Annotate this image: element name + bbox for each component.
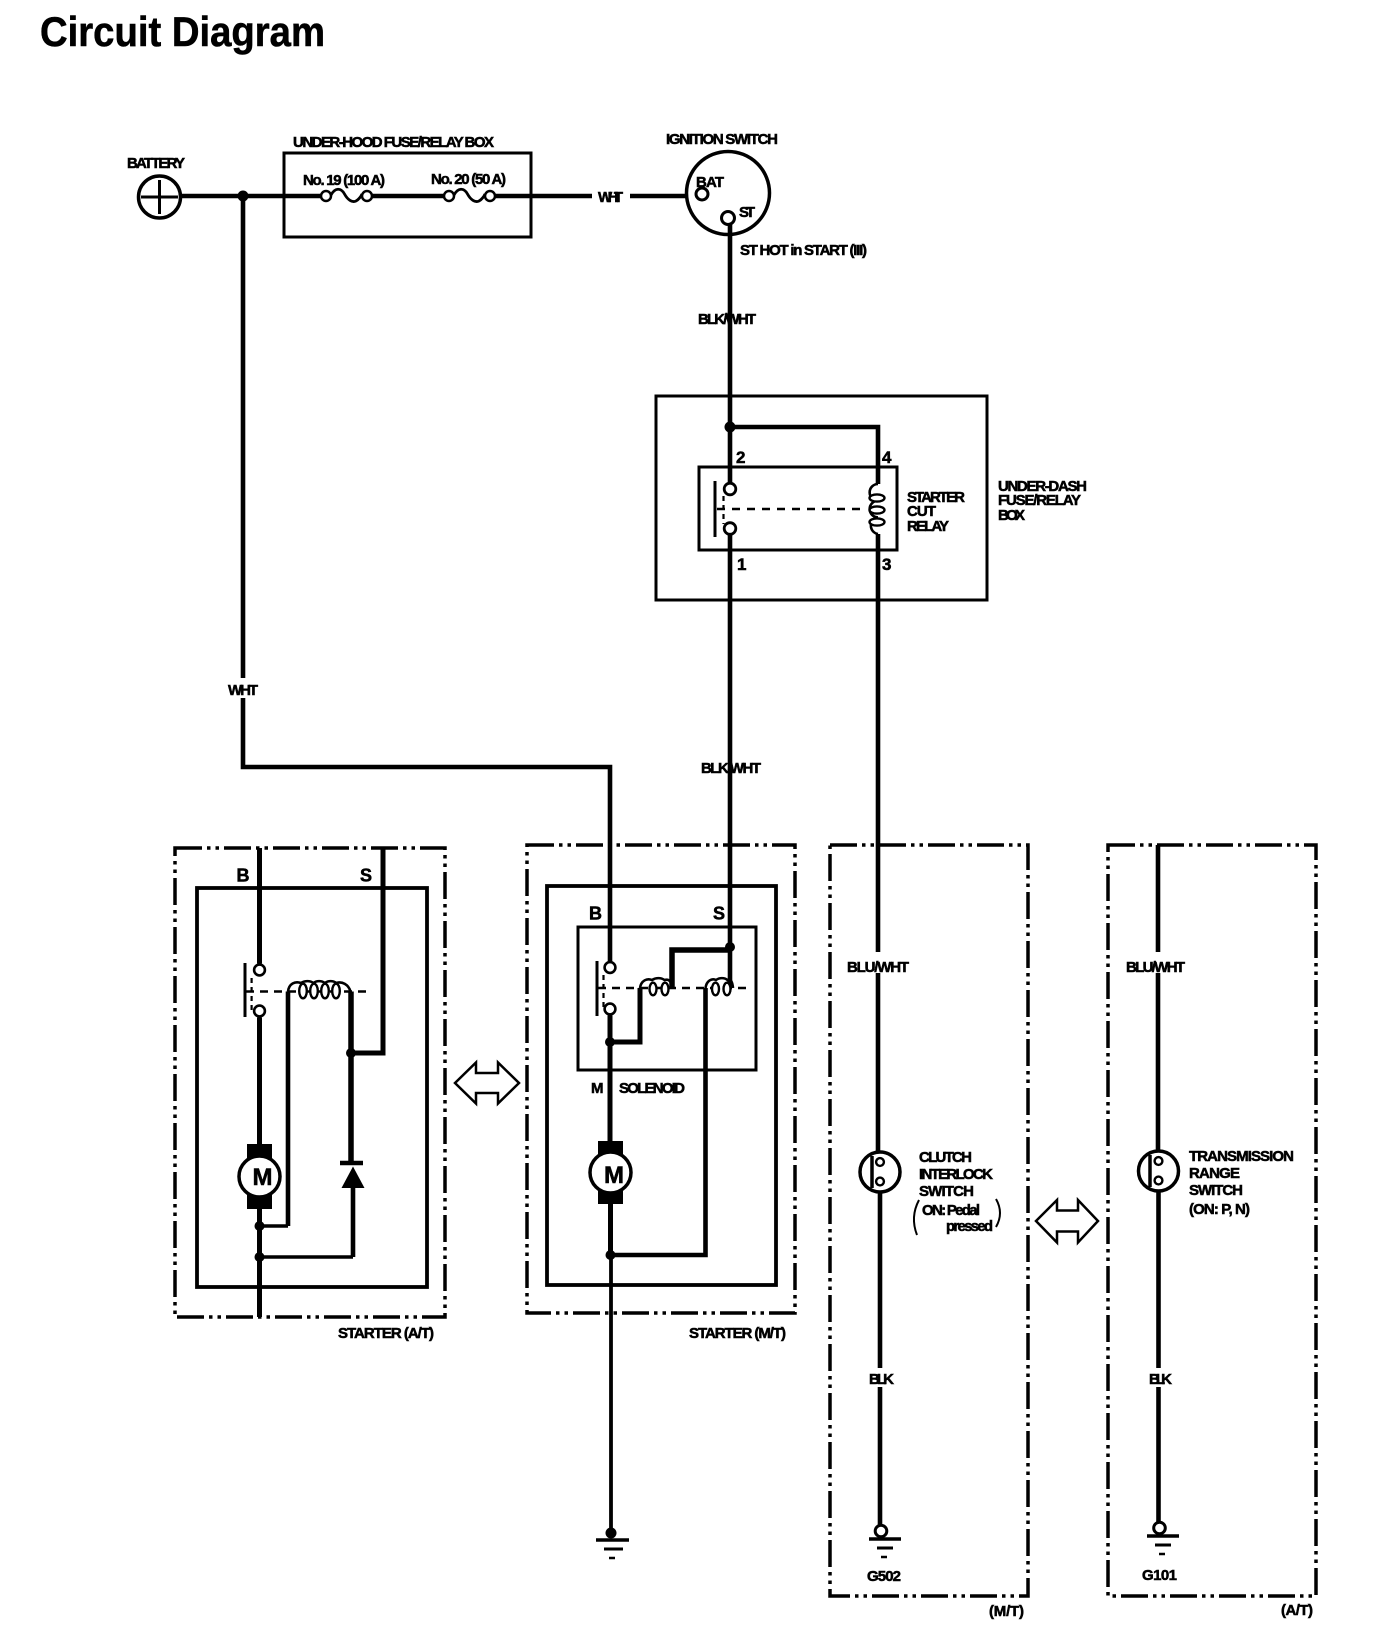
svg-text:(A/T): (A/T) bbox=[1281, 1602, 1313, 1619]
svg-text:M: M bbox=[604, 1162, 624, 1189]
svg-text:SOLENOID: SOLENOID bbox=[619, 1080, 685, 1097]
svg-text:2: 2 bbox=[736, 448, 745, 467]
svg-text:BLK: BLK bbox=[869, 1371, 894, 1388]
svg-text:RELAY: RELAY bbox=[907, 518, 949, 535]
svg-text:G502: G502 bbox=[867, 1568, 901, 1585]
svg-text:BLK: BLK bbox=[1149, 1371, 1172, 1388]
svg-text:No. 19 (100 A): No. 19 (100 A) bbox=[303, 172, 385, 189]
svg-text:SWITCH: SWITCH bbox=[919, 1183, 974, 1200]
svg-text:IGNITION SWITCH: IGNITION SWITCH bbox=[666, 131, 778, 148]
svg-text:INTERLOCK: INTERLOCK bbox=[919, 1166, 993, 1183]
svg-text:BATTERY: BATTERY bbox=[127, 155, 185, 172]
svg-text:BLU/WHT: BLU/WHT bbox=[847, 959, 909, 976]
svg-text:RANGE: RANGE bbox=[1189, 1165, 1240, 1182]
svg-text:pressed: pressed bbox=[946, 1218, 993, 1235]
svg-text:M: M bbox=[253, 1164, 273, 1191]
svg-text:(M/T): (M/T) bbox=[989, 1603, 1024, 1620]
svg-text:B: B bbox=[237, 866, 250, 886]
svg-text:No. 20 (50 A): No. 20 (50 A) bbox=[431, 171, 506, 188]
svg-text:BAT: BAT bbox=[696, 174, 724, 191]
svg-text:ST HOT in START (III): ST HOT in START (III) bbox=[740, 242, 867, 259]
svg-text:ST: ST bbox=[739, 204, 755, 221]
svg-text:G101: G101 bbox=[1142, 1567, 1177, 1584]
svg-text:B: B bbox=[589, 904, 602, 924]
svg-text:3: 3 bbox=[882, 555, 891, 574]
svg-text:WHT: WHT bbox=[228, 682, 258, 699]
svg-text:M: M bbox=[591, 1080, 604, 1097]
svg-text:BLK/WHT: BLK/WHT bbox=[701, 760, 761, 777]
svg-text:WHT: WHT bbox=[598, 189, 623, 206]
svg-text:SWITCH: SWITCH bbox=[1189, 1182, 1243, 1199]
svg-text:ON: Pedal: ON: Pedal bbox=[922, 1202, 980, 1219]
svg-text:BOX: BOX bbox=[998, 507, 1025, 524]
svg-text:S: S bbox=[360, 866, 372, 886]
svg-text:S: S bbox=[713, 904, 725, 924]
svg-text:STARTER (A/T): STARTER (A/T) bbox=[338, 1325, 434, 1342]
svg-text:(ON: P, N): (ON: P, N) bbox=[1189, 1201, 1250, 1218]
svg-text:1: 1 bbox=[737, 555, 746, 574]
svg-text:CLUTCH: CLUTCH bbox=[919, 1149, 972, 1166]
svg-text:BLU/WHT: BLU/WHT bbox=[1126, 959, 1185, 976]
svg-text:Circuit Diagram: Circuit Diagram bbox=[40, 8, 325, 55]
svg-text:STARTER (M/T): STARTER (M/T) bbox=[689, 1325, 786, 1342]
svg-text:TRANSMISSION: TRANSMISSION bbox=[1189, 1148, 1294, 1165]
svg-text:4: 4 bbox=[882, 448, 892, 467]
svg-text:UNDER-HOOD FUSE/RELAY BOX: UNDER-HOOD FUSE/RELAY BOX bbox=[293, 134, 494, 151]
svg-text:BLK/WHT: BLK/WHT bbox=[698, 311, 756, 328]
